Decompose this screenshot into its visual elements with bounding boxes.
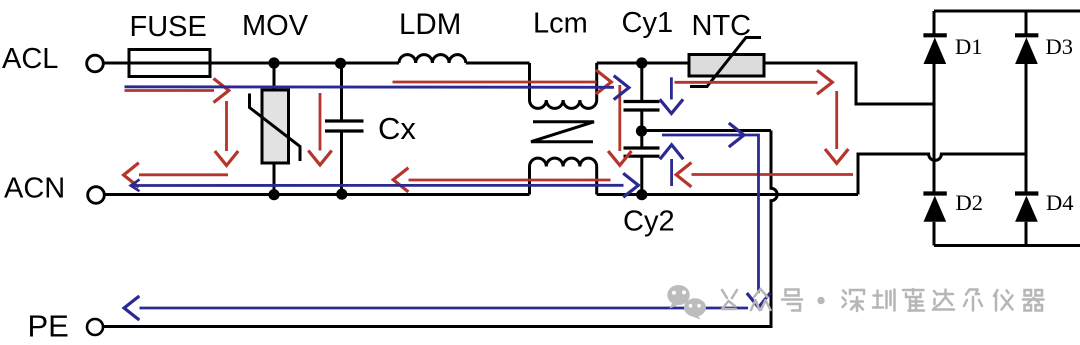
wire PE horizontal <box>103 325 772 328</box>
blue arrow PE return line <box>140 307 749 310</box>
wire ACN rail <box>104 193 529 196</box>
choke Lcm core <box>531 122 594 142</box>
red arrowhead down at Cy2 <box>608 151 631 165</box>
watermark text zhong <box>751 289 771 310</box>
wire bridge left column middle <box>933 64 936 192</box>
red arrow down at Cy1 <box>618 85 621 151</box>
red arrowhead left toward Cy2 <box>676 163 691 187</box>
wire bridge left column <box>933 11 936 35</box>
capacitor Cy1 bottom plate <box>624 108 660 111</box>
capacitor Cy2 top plate <box>624 146 660 149</box>
capacitor Cy2 bottom plate <box>624 155 660 158</box>
diode D2 <box>923 194 946 222</box>
red arrowhead down after MOV <box>308 151 331 166</box>
varistor MOV bottom stem <box>273 163 276 195</box>
choke Lcm bottom winding <box>530 158 597 194</box>
varistor MOV top stem <box>273 63 276 91</box>
red arrowhead right at Lcm exit <box>596 70 611 94</box>
watermark text shen <box>843 290 865 311</box>
watermark text huo <box>903 289 924 311</box>
watermark text da <box>933 290 954 310</box>
thermistor NTC diagonal <box>690 38 761 87</box>
red arrow return from bridge <box>692 173 854 176</box>
red arrow return to ACL line <box>139 173 228 176</box>
wire bridge right column bottom <box>1025 222 1028 246</box>
blue arrowhead down at PE line <box>747 293 770 307</box>
blue arrow down into Cy1 <box>670 77 673 99</box>
svg-text:Cy2: Cy2 <box>623 206 675 238</box>
wire bridge left column bottom <box>933 222 936 246</box>
red arrowhead right at fuse exit <box>214 79 229 103</box>
blue arrow up through Cy2 <box>670 159 673 186</box>
svg-text:D2: D2 <box>956 190 984 215</box>
red arrow down after MOV <box>319 93 322 151</box>
red arrowhead right after NTC <box>817 70 832 94</box>
blue arrow ACL common-mode line <box>125 85 615 88</box>
node ACL terminal <box>87 55 104 72</box>
blue arrowhead right on midpoint wire <box>729 123 744 147</box>
wire ACN to bridge with crossover hop <box>858 154 1026 195</box>
watermark text gong <box>722 290 737 309</box>
varistor MOV body <box>262 90 289 163</box>
svg-text:D1: D1 <box>955 34 983 59</box>
red arrowhead left near ACN terminal <box>124 163 139 187</box>
svg-text:Cx: Cx <box>378 111 416 146</box>
diode D4 <box>1015 194 1038 222</box>
wire bridge right column top <box>1025 11 1028 35</box>
capacitor Cx bottom plate <box>325 129 364 132</box>
junction dot Cy midpoint <box>636 125 647 136</box>
red arrow line through NTC <box>675 81 818 84</box>
svg-text:ACL: ACL <box>2 43 58 75</box>
watermark text qi <box>1023 290 1044 311</box>
watermark middle dot <box>817 297 824 304</box>
wire ACL lead <box>103 62 129 65</box>
red arrowhead down before MOV <box>215 151 238 166</box>
red arrow line LDM to Lcm <box>393 81 597 84</box>
junction dot Cx top <box>335 58 346 69</box>
wire ACL rail fuse to LDM <box>210 62 399 65</box>
svg-text:Cy1: Cy1 <box>622 7 674 39</box>
junction dot Cx bottom <box>336 189 347 200</box>
watermark text yi <box>994 290 1013 311</box>
wire Cy midpoint to PE drop <box>642 129 772 132</box>
blue arrowhead small left at ACN start <box>131 180 140 192</box>
junction dot MOV top <box>268 57 279 68</box>
diode D1 <box>923 35 946 64</box>
wire ACN rail after Lcm <box>597 193 858 196</box>
wire NTC to bridge corner <box>764 63 934 104</box>
capacitor Cy1 top plate <box>624 100 660 103</box>
svg-text:MOV: MOV <box>242 10 309 42</box>
svg-text:PE: PE <box>28 309 69 344</box>
blue arrowhead down at Cy1 <box>660 99 683 113</box>
blue arrowhead up at Cy2 <box>660 145 683 159</box>
diode D3 <box>1015 35 1038 64</box>
blue arrow midpoint to PE drop <box>662 135 759 293</box>
red arrow return under Lcm <box>409 179 611 182</box>
blue arrowhead left at PE terminal <box>124 296 139 320</box>
fuse FUSE body <box>129 50 210 77</box>
junction dot Cy2 bottom <box>636 189 647 200</box>
red arrow ACL inflow line <box>125 89 215 92</box>
node PE terminal <box>87 319 103 335</box>
wire bridge negative rail <box>934 244 1080 247</box>
svg-text:FUSE: FUSE <box>130 11 207 43</box>
red arrow down before MOV <box>225 101 228 151</box>
red arrow down before bridge <box>835 91 838 149</box>
blue arrowhead right at Cy2 bottom <box>623 173 638 197</box>
svg-text:Lcm: Lcm <box>533 8 588 40</box>
watermark wechat logo <box>667 285 706 320</box>
junction dot MOV bottom <box>268 189 279 200</box>
wire bridge positive rail <box>934 10 1080 13</box>
red arrowhead down before bridge <box>825 149 848 163</box>
blue arrow ACN common-mode line <box>132 184 624 187</box>
capacitor Cy2 bottom stem <box>640 156 643 194</box>
svg-text:NTC: NTC <box>692 10 752 42</box>
wire PE drop with hop over ACN rail <box>771 131 777 327</box>
junction dot Cy1 top <box>636 57 647 68</box>
wire Lcm to NTC rail <box>597 62 689 65</box>
watermark text hao <box>782 290 802 311</box>
node ACN terminal <box>88 187 105 204</box>
capacitor Cx top stem <box>340 63 343 121</box>
varistor MOV diagonal <box>250 94 301 162</box>
watermark text er <box>964 290 982 311</box>
red arrowhead left under Cx <box>393 168 408 192</box>
watermark text zhen <box>873 290 895 311</box>
capacitor Cx top plate <box>325 119 364 122</box>
thermistor NTC body <box>689 55 764 77</box>
capacitor Cx bottom stem <box>340 131 343 195</box>
inductor LDM coil <box>399 55 466 63</box>
capacitor Cy1 top stem <box>640 63 643 102</box>
wire bridge right column middle <box>1025 64 1028 192</box>
capacitor Cy1 bottom stem <box>640 110 643 148</box>
fuse FUSE element wire <box>129 62 210 65</box>
blue arrowhead right before Cy1 <box>614 76 629 100</box>
svg-text:LDM: LDM <box>399 8 461 41</box>
svg-text:D4: D4 <box>1046 190 1074 215</box>
choke Lcm top winding <box>530 63 597 108</box>
svg-text:D3: D3 <box>1046 34 1074 59</box>
svg-text:ACN: ACN <box>4 173 65 205</box>
wire LDM to Lcm <box>466 62 530 65</box>
